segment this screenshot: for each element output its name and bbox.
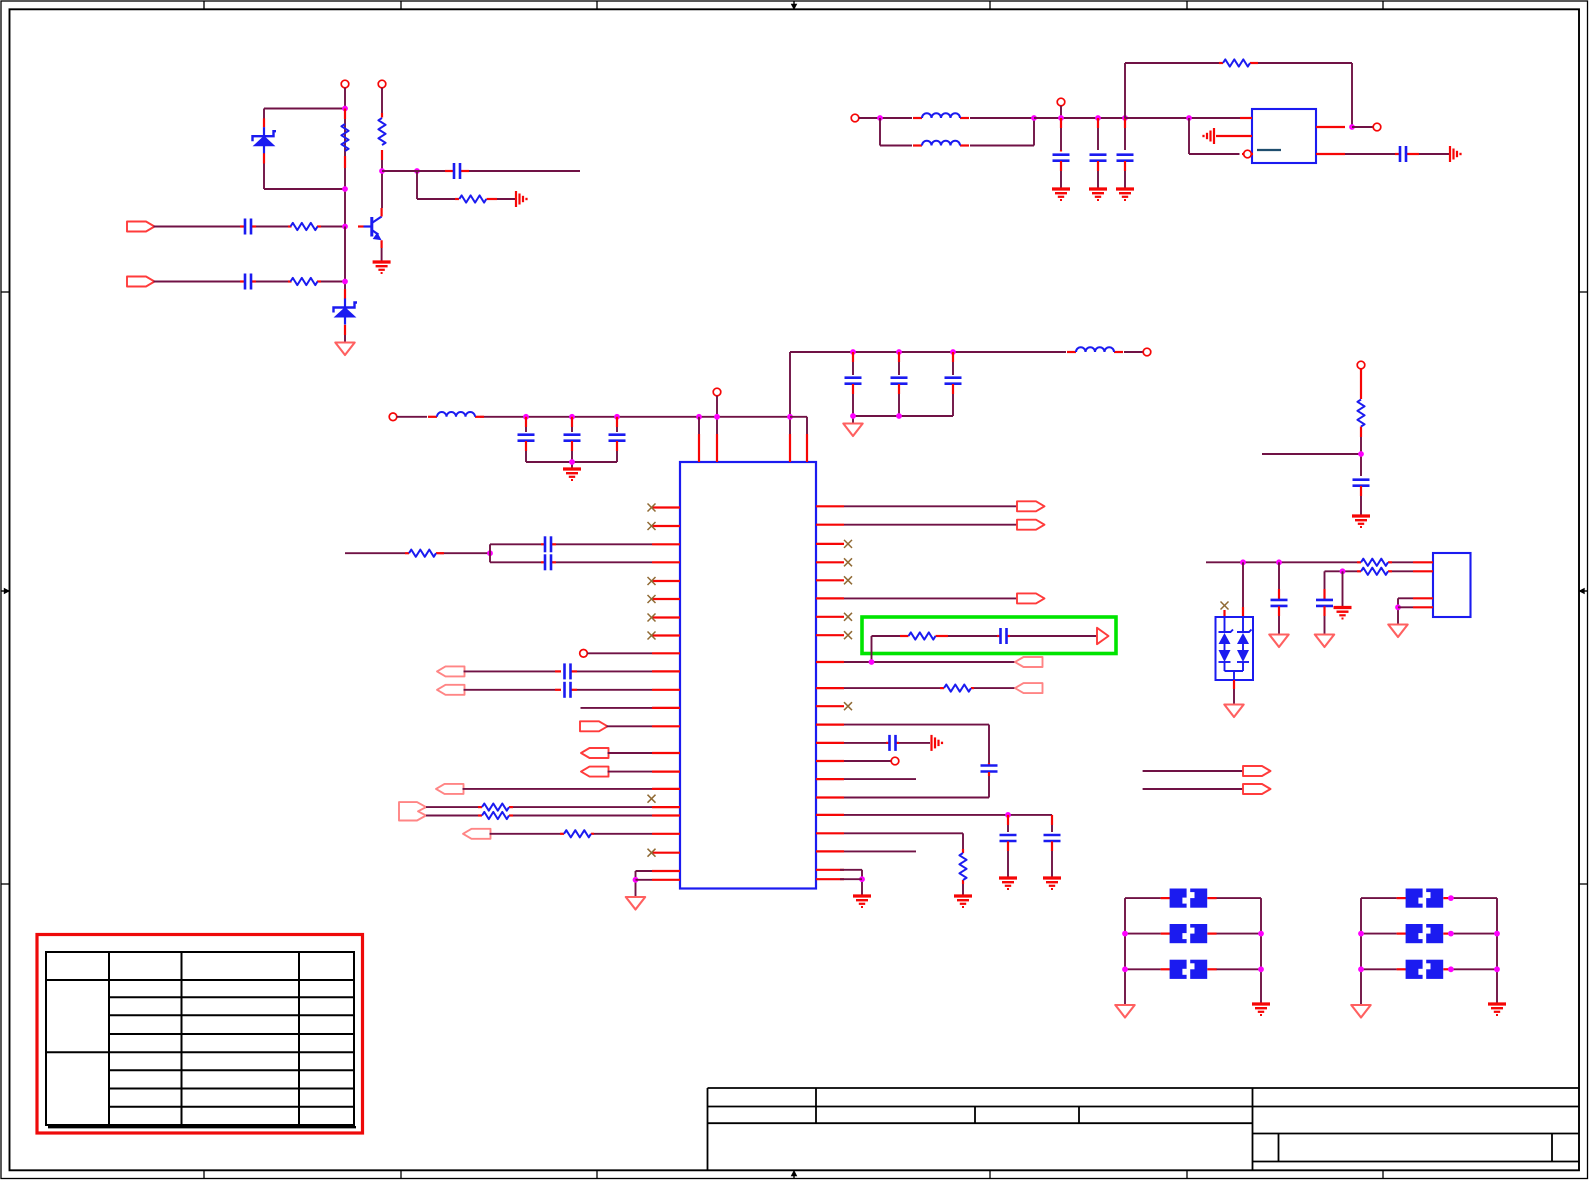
border zone ticks left	[1, 292, 10, 884]
no-connect	[844, 540, 852, 548]
input port P2	[127, 277, 155, 287]
wire	[464, 689, 653, 691]
wire	[344, 88, 346, 227]
wire feedback loop	[844, 725, 989, 763]
capacitor C4	[1053, 118, 1070, 188]
port P10	[463, 829, 491, 839]
wire	[790, 351, 1066, 353]
port P3	[437, 666, 465, 676]
junction	[569, 414, 575, 420]
wire	[426, 815, 652, 817]
capacitor C21	[1000, 815, 1017, 877]
wire	[1233, 689, 1235, 704]
wire	[581, 707, 653, 709]
wire	[1060, 106, 1062, 118]
no-connect	[648, 614, 656, 622]
capacitor C1	[445, 163, 469, 179]
analog ground	[1269, 635, 1288, 648]
junction	[1122, 966, 1128, 972]
junction	[342, 106, 348, 112]
junction	[523, 414, 529, 420]
junction	[869, 659, 875, 665]
ground	[563, 469, 581, 480]
inductor L4	[1067, 347, 1123, 352]
wire	[344, 335, 346, 342]
wire	[844, 661, 1015, 663]
saw filter U2	[1252, 109, 1316, 163]
port P5	[580, 721, 608, 731]
wire	[344, 227, 346, 300]
wire	[636, 879, 653, 881]
border center mark bottom	[791, 1170, 798, 1179]
wire	[463, 788, 653, 790]
junction	[1276, 559, 1282, 565]
wire	[490, 833, 653, 835]
junction	[342, 224, 348, 230]
no-connect	[648, 577, 656, 585]
junction	[342, 186, 348, 192]
wire	[345, 552, 490, 554]
ground	[1052, 189, 1070, 200]
title block	[708, 1088, 1580, 1170]
junction	[1186, 115, 1192, 121]
no-connect	[648, 632, 656, 640]
wire	[844, 760, 891, 762]
ground	[1043, 878, 1061, 889]
capacitor C6	[1117, 118, 1134, 188]
transistor Q1	[358, 208, 382, 248]
output port P12	[1017, 520, 1045, 530]
U2 output open pin	[1244, 150, 1252, 158]
U2 pin stubs	[1216, 118, 1345, 154]
wire	[381, 160, 383, 208]
analog ground	[335, 343, 354, 356]
wire	[426, 806, 652, 808]
wire	[464, 670, 653, 672]
capacitor C2	[240, 219, 256, 235]
junction	[896, 413, 902, 419]
U1 top pin stubs	[699, 434, 807, 462]
junction	[1494, 966, 1500, 972]
junction	[379, 168, 385, 174]
supply node open pin	[1357, 361, 1365, 369]
junction	[714, 414, 720, 420]
wire	[844, 850, 916, 852]
junction	[342, 279, 348, 285]
junction	[1395, 604, 1401, 610]
wire	[154, 281, 346, 283]
signal ground	[932, 735, 943, 751]
junction	[1358, 931, 1364, 937]
ground	[954, 896, 972, 907]
resistor R11	[940, 685, 974, 692]
border zone ticks bottom	[204, 1170, 1383, 1178]
wire	[853, 416, 953, 423]
wire	[844, 524, 1017, 526]
wire	[1398, 598, 1413, 624]
node open pin	[580, 650, 588, 658]
U1 left pin stubs	[652, 508, 680, 880]
capacitor C10	[609, 417, 626, 462]
junction	[1349, 124, 1355, 130]
wire	[636, 871, 653, 896]
zener diode D2	[334, 289, 358, 335]
analog ground	[1115, 1005, 1134, 1018]
junction	[1005, 812, 1011, 818]
wire	[1325, 570, 1358, 572]
output node open pin	[1373, 123, 1381, 131]
border center mark left	[1, 588, 10, 595]
node open pin	[891, 757, 899, 765]
port P8	[436, 784, 464, 794]
ferrite bead FB3	[1161, 960, 1217, 979]
ferrite bead FB4	[1397, 889, 1453, 908]
U2 logo line	[1257, 149, 1281, 151]
wire	[844, 797, 989, 799]
output node open pin	[1143, 348, 1151, 356]
filter block U3	[1433, 553, 1471, 617]
no-connect	[844, 576, 852, 584]
resistor R1	[341, 109, 348, 169]
wire	[587, 652, 652, 654]
analog ground	[1315, 635, 1334, 648]
U3 pin stubs	[1413, 562, 1433, 607]
zener diode D1	[253, 118, 277, 163]
power node V2 open pin	[378, 80, 386, 88]
junction	[1494, 931, 1500, 937]
no-connect	[648, 795, 656, 803]
inductor L2	[913, 141, 969, 146]
resistor R15	[1357, 568, 1392, 575]
capacitor C16	[555, 663, 577, 679]
analog ground	[626, 897, 645, 910]
resistor R7	[478, 804, 513, 811]
ferrite bead FB5	[1397, 924, 1453, 943]
resistor R8	[478, 812, 513, 819]
wire	[490, 561, 652, 563]
wire	[844, 687, 1015, 689]
junction	[1122, 115, 1128, 121]
wire	[790, 417, 807, 434]
ground	[1252, 1004, 1270, 1015]
junction	[850, 413, 856, 419]
wire	[1392, 570, 1413, 572]
wire	[413, 170, 580, 172]
wire	[264, 109, 345, 190]
wire	[154, 226, 346, 228]
no-connect	[648, 522, 656, 530]
wire	[844, 505, 1017, 507]
dual port P9	[399, 802, 426, 820]
analog ground	[1224, 705, 1243, 718]
junction	[1358, 451, 1364, 457]
wire	[417, 171, 455, 199]
wire feedback	[1125, 63, 1352, 127]
junction	[850, 349, 856, 355]
junction	[1122, 931, 1128, 937]
wire	[1242, 562, 1244, 607]
wire	[844, 742, 930, 744]
ground	[999, 878, 1017, 889]
junction	[633, 877, 639, 883]
ground	[373, 262, 391, 273]
capacitor C14	[541, 536, 556, 552]
ferrite bead FB6	[1397, 960, 1453, 979]
node open pin	[1057, 98, 1065, 106]
resistor R13	[1357, 369, 1364, 437]
wire	[844, 833, 963, 849]
power node V1 open pin	[341, 80, 349, 88]
wire	[1361, 898, 1497, 1004]
capacitor C20	[886, 735, 899, 751]
junction	[614, 414, 620, 420]
junction	[950, 349, 956, 355]
capacitor C19	[981, 763, 998, 798]
ferrite bead FB1	[1161, 889, 1217, 908]
capacitor C23	[1353, 480, 1370, 515]
revision table red frame	[37, 935, 363, 1134]
port P15	[1015, 657, 1043, 667]
resistor R3	[455, 195, 497, 202]
wire	[1034, 117, 1189, 119]
wire	[1345, 153, 1449, 155]
capacitor C9	[564, 417, 581, 462]
junction	[1058, 115, 1064, 121]
junction	[414, 168, 420, 174]
wire	[1125, 898, 1261, 1004]
wire	[1398, 606, 1413, 608]
ground	[1089, 189, 1107, 200]
capacitor C24	[1316, 571, 1333, 634]
capacitor C25	[1271, 562, 1288, 634]
no-connect	[844, 702, 852, 710]
highlight box	[862, 617, 1116, 654]
ground	[853, 896, 871, 907]
wire	[1143, 788, 1243, 790]
resistor R2	[378, 88, 385, 160]
border zone ticks right	[1579, 292, 1588, 884]
resistor R6	[405, 550, 444, 557]
wire	[381, 248, 383, 261]
capacitor C22	[1044, 815, 1061, 877]
wire	[716, 396, 718, 434]
capacitor C15	[541, 554, 556, 570]
wire	[840, 878, 862, 880]
capacitor C13	[945, 352, 962, 416]
wire	[397, 416, 790, 418]
signal ground	[516, 191, 527, 207]
wire	[844, 814, 1052, 816]
capacitor C8	[518, 417, 535, 462]
resistor R9	[560, 830, 594, 837]
output port P17	[1243, 766, 1271, 776]
junction	[1258, 931, 1264, 937]
resistor R12	[959, 849, 966, 884]
wire	[490, 544, 652, 562]
capacitor C3	[240, 274, 256, 290]
ground	[1116, 189, 1134, 200]
wire	[880, 118, 1034, 146]
junction	[1448, 931, 1454, 937]
capacitor C18	[997, 628, 1010, 644]
no-connect	[648, 504, 656, 512]
wire	[1352, 126, 1373, 128]
wire	[526, 462, 617, 468]
wire	[1143, 770, 1243, 772]
capacitor C11	[845, 352, 862, 416]
junction	[1448, 895, 1454, 901]
junction	[1095, 115, 1101, 121]
ground	[1334, 608, 1352, 619]
junction	[1240, 559, 1246, 565]
resistor R16	[1219, 59, 1258, 66]
wire	[1361, 968, 1497, 970]
wire	[608, 771, 653, 773]
junction	[1258, 966, 1264, 972]
junction	[896, 349, 902, 355]
wire	[1125, 117, 1240, 119]
input node open pin	[851, 114, 859, 122]
port P7	[581, 767, 609, 777]
wire	[1125, 933, 1261, 935]
border zone ticks top	[204, 1, 1383, 9]
wire	[1361, 933, 1497, 935]
output port P18	[1243, 784, 1271, 794]
signal ground	[1450, 146, 1461, 162]
no-connect	[648, 849, 656, 857]
wire	[382, 170, 413, 172]
wire	[844, 597, 1017, 599]
no-connect	[844, 558, 852, 566]
ground	[1352, 516, 1370, 527]
no-connect	[844, 631, 852, 639]
junction	[696, 414, 702, 420]
output port P11	[1017, 501, 1045, 511]
wire	[698, 417, 700, 434]
analog ground	[843, 424, 862, 437]
inductor L1	[913, 113, 969, 118]
ground	[1488, 1004, 1506, 1015]
junction	[1448, 966, 1454, 972]
no-connect	[1221, 602, 1229, 610]
junction	[787, 414, 793, 420]
junction	[859, 876, 865, 882]
wire	[1189, 118, 1240, 154]
junction	[1340, 568, 1346, 574]
IC U1	[680, 462, 816, 889]
U1 right pin stubs	[816, 506, 844, 879]
wire net rail	[1206, 561, 1357, 563]
wire	[497, 198, 515, 200]
wire	[608, 752, 653, 754]
revision table grid	[46, 952, 356, 1127]
port P6	[581, 748, 609, 758]
junction	[1358, 966, 1364, 972]
capacitor C7	[1395, 146, 1419, 162]
resistor R10	[900, 632, 948, 639]
junction	[487, 550, 493, 556]
ESD array D3	[1216, 607, 1254, 689]
signal ground	[1204, 128, 1215, 144]
wire	[607, 725, 653, 727]
wire	[1125, 968, 1261, 970]
border center mark right	[1579, 588, 1588, 595]
wire	[962, 884, 964, 895]
wire	[840, 870, 862, 895]
ferrite bead FB2	[1161, 924, 1217, 943]
wire	[844, 778, 916, 780]
port P14 triangle	[1097, 628, 1109, 644]
capacitor C17	[555, 682, 577, 698]
junction	[1031, 115, 1037, 121]
output port P13	[1017, 593, 1045, 603]
wire	[859, 117, 1034, 119]
wire	[1361, 897, 1497, 899]
junction	[569, 459, 575, 465]
port P16	[1015, 683, 1043, 693]
no-connect	[844, 613, 852, 621]
wire	[1262, 437, 1361, 476]
node open pin	[713, 388, 721, 396]
wire	[1392, 561, 1413, 563]
wire	[1124, 351, 1143, 353]
resistor R4	[288, 223, 321, 230]
port P4	[437, 685, 465, 695]
analog ground	[1388, 625, 1407, 638]
wire	[1125, 897, 1261, 899]
wire riser	[789, 352, 791, 434]
input port P1	[127, 222, 155, 232]
supply node open pin	[389, 413, 397, 421]
analog ground	[1351, 1005, 1370, 1018]
capacitor C12	[891, 352, 908, 416]
wire	[1342, 571, 1344, 606]
inductor L3	[428, 412, 484, 417]
junction	[877, 115, 883, 121]
wire	[872, 636, 1098, 662]
resistor R5	[288, 278, 321, 285]
resistor R14	[1357, 559, 1392, 566]
no-connect	[648, 595, 656, 603]
capacitor C5	[1090, 118, 1107, 188]
border center mark top	[791, 1, 798, 10]
